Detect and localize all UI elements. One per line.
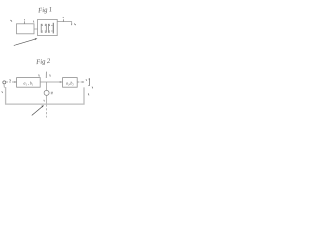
output arrowhead (82, 81, 84, 83)
label 1 (23, 19, 26, 20)
box1 (17, 78, 41, 88)
label tick 16 (1, 91, 4, 93)
wire summing to box1 (6, 81, 16, 83)
wire box1 to box2 (40, 81, 62, 83)
pointer arrowhead (41, 105, 44, 107)
label 6 (74, 24, 75, 26)
summing stub (3, 84, 5, 87)
tick above wire left (38, 74, 40, 76)
label tick b (91, 87, 94, 89)
element A (41, 24, 46, 32)
pin tick 4 (33, 21, 35, 23)
label 9 vertical (45, 72, 47, 78)
label hook (88, 79, 89, 86)
element A dots (42, 25, 46, 32)
label 8 tick (9, 79, 11, 81)
output wire dashes (77, 81, 82, 83)
arrowhead into box1 (14, 81, 16, 83)
element B (48, 23, 53, 34)
pointer arrow 13 (32, 106, 43, 115)
label 3 (62, 17, 65, 18)
svg-text:Fig 1: Fig 1 (37, 6, 53, 14)
feedback loop (6, 87, 84, 104)
tap wire down (46, 82, 48, 90)
leader arrow 7 (16, 39, 36, 45)
pin tick 1 (23, 21, 25, 24)
left box (17, 24, 35, 34)
element B dots (49, 25, 53, 32)
label tick a (85, 79, 88, 81)
wire left box to main box (34, 28, 38, 30)
tick near crossing (43, 100, 45, 102)
label 5 (11, 20, 13, 22)
label tick c (87, 93, 90, 95)
summing junction (3, 81, 6, 84)
output wire (57, 22, 71, 25)
svg-text:Fig 2: Fig 2 (35, 58, 51, 66)
box2 (63, 78, 78, 88)
label 11 dashes (51, 92, 53, 94)
tick above wire right (49, 74, 51, 76)
leader arrowhead (35, 38, 38, 40)
leader tail mark (14, 44, 16, 47)
arrowhead into box2 (60, 81, 62, 83)
tick 3 (62, 19, 64, 21)
main box U1 (38, 19, 58, 35)
meter circle (44, 90, 49, 95)
axis line solid part (46, 96, 48, 104)
arrowhead output (71, 24, 72, 26)
dashed axis line (46, 104, 48, 117)
